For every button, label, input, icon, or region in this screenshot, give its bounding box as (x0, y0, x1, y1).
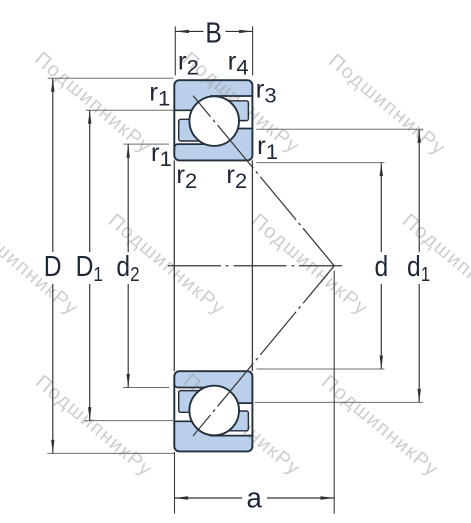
extension line d (top) (256, 162, 384, 164)
upper bearing cross-section strokes (174, 80, 252, 160)
dimension line D (52, 78, 54, 252)
inner ring shoulder line with corner radius (upper left) (174, 144, 210, 150)
horizontal centre line (168, 265, 342, 267)
lower bearing cross-section fills (mirrored) (174, 371, 252, 451)
extension line d1 (top) (256, 128, 423, 130)
contact angle line (upper bearing to apex) (193, 96, 334, 266)
OD-side gap (upper bearing right) (214, 96, 252, 129)
extension line D1 (bottom) (84, 420, 174, 422)
cage segment (upper bearing left) (179, 119, 206, 141)
extension line d2 (bottom) (123, 387, 169, 389)
cage segment fill (upper bearing left) (179, 119, 206, 141)
cage segment fill (upper bearing right) (222, 101, 248, 121)
outer ring shoulder line (upper left) (174, 109, 196, 111)
ring contour (upper bearing) (174, 80, 252, 160)
extension line D (bottom) (47, 452, 174, 454)
ring block fill (upper bearing) (174, 80, 252, 160)
extension line B (right) (252, 26, 254, 75)
bore-side gap (upper bearing left) (174, 110, 214, 144)
extension line d2 (top) (123, 143, 169, 145)
upper bearing cross-section fills (174, 80, 252, 160)
lower bearing cross-section strokes (mirrored) (174, 371, 252, 451)
dimension line d1 (418, 129, 420, 252)
extension line d1 (bottom) (255, 401, 423, 403)
svg-text:d: d (374, 250, 388, 282)
dimension line B (175, 30, 203, 32)
extension line a (left) (174, 452, 176, 514)
extension line D (top) (48, 77, 174, 79)
OD face line between bearings (251, 160, 253, 371)
dimension line d2 (127, 144, 129, 252)
extension line B (left) (174, 26, 176, 75)
svg-text:B: B (205, 17, 221, 49)
ball (upper bearing) (189, 96, 239, 146)
svg-text:D: D (44, 250, 62, 282)
extension line D1 (top) (86, 109, 174, 111)
bore face line between bearings (173, 160, 175, 371)
svg-text:a: a (247, 481, 263, 514)
contact angle line (lower bearing to apex) (193, 266, 334, 436)
cage segment (upper bearing right) (222, 101, 248, 121)
inner ring shoulder line (upper right) (230, 128, 252, 130)
dimension line a (175, 497, 243, 499)
ball fill (upper bearing) (189, 96, 239, 146)
extension line d (bottom) (256, 368, 384, 370)
outer ring shoulder line (upper right) (210, 95, 252, 97)
dimension line D1 (89, 110, 91, 252)
apex vertical line / extension line a (right) (333, 271, 335, 514)
dimension line d (380, 163, 382, 252)
